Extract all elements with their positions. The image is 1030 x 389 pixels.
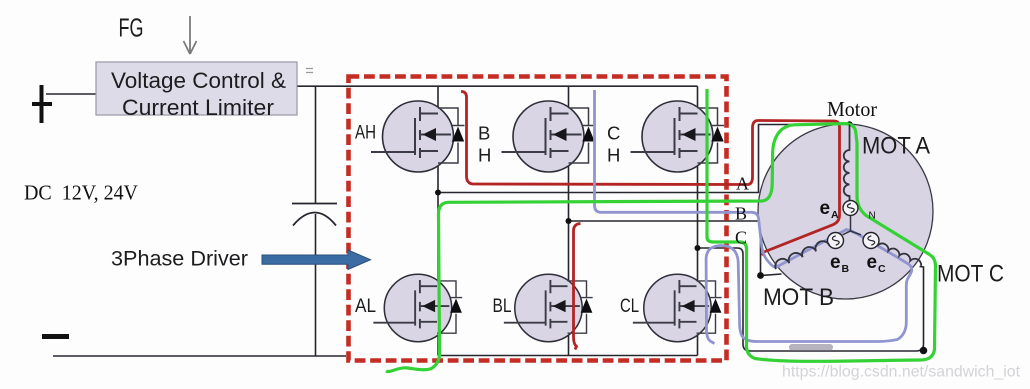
MOSFET BH (Q2) with body diode — [502, 101, 596, 172]
svg-text:H: H — [607, 145, 620, 166]
capacitor C1 curved plate — [293, 213, 336, 226]
svg-text:MOT A: MOT A — [862, 133, 931, 160]
svg-text:Voltage Control &: Voltage Control & — [111, 68, 286, 93]
wire phase C green branch via motor top — [386, 124, 930, 372]
winding MOT B coil — [775, 241, 829, 269]
wire bottom DC return — [53, 355, 346, 357]
FG input arrow — [184, 16, 197, 54]
wire phase C vertical bus — [697, 86, 699, 355]
battery minus terminal — [42, 334, 69, 339]
svg-text:N: N — [869, 211, 876, 222]
svg-text:B: B — [478, 123, 490, 144]
svg-text:e: e — [867, 252, 878, 273]
winding MOT C coil — [878, 243, 922, 265]
svg-text:CL: CL — [620, 295, 639, 317]
junction node phase A — [435, 190, 441, 196]
svg-text:B: B — [735, 204, 747, 224]
wire red BL branch — [574, 224, 581, 350]
svg-text:H: H — [478, 145, 491, 166]
small mark near box output — [306, 69, 313, 73]
wire phase A black to motor — [438, 125, 847, 193]
svg-text:C: C — [878, 263, 886, 275]
svg-text:FG: FG — [119, 15, 144, 43]
wire left DC bus lower segment — [315, 214, 317, 356]
junction node phase C — [695, 245, 701, 251]
3Phase Driver pointer arrow — [262, 250, 371, 270]
node N link — [843, 216, 862, 235]
control box: Voltage Control & Current Limiter — [96, 62, 297, 115]
wire phase A red: inverter to motor top — [461, 92, 840, 256]
junction node motor A terminal — [846, 121, 852, 127]
MOSFET CL (Q6) with body diode — [633, 274, 722, 341]
MOSFET AL (Q4) with body diode — [373, 274, 462, 341]
svg-text:e: e — [830, 252, 841, 273]
svg-text:C: C — [607, 123, 620, 144]
junction node motor C return — [920, 347, 928, 355]
wire phase B vertical bus — [568, 86, 570, 355]
wire phase B stub to winding B — [761, 274, 782, 276]
junction node motor B return — [757, 272, 764, 279]
MOSFET CH (Q3) with body diode — [631, 101, 725, 172]
svg-text:B: B — [842, 263, 850, 275]
svg-text:AL: AL — [355, 295, 376, 317]
wire left DC bus upper segment — [315, 86, 317, 203]
wire phase A vertical bus — [437, 86, 439, 355]
svg-text:MOT C: MOT C — [937, 261, 1004, 288]
wire phase B blue loop around motor — [706, 230, 912, 344]
svg-text:C: C — [735, 228, 747, 248]
MOSFET AH (Q1) with body diode — [371, 101, 465, 172]
junction node phase B — [566, 218, 572, 224]
wire phase C green ring: bus to motor bottom — [707, 89, 936, 361]
source eB circle — [828, 233, 844, 249]
svg-text:https://blog.csdn.net/sandwich: https://blog.csdn.net/sandwich_iot — [782, 364, 1021, 381]
wire inverter bottom rail — [438, 355, 698, 357]
svg-text:Current Limiter: Current Limiter — [122, 95, 275, 120]
winding MOT A coil — [844, 125, 850, 201]
battery plus terminal — [32, 85, 52, 123]
source eA circle — [843, 201, 858, 216]
wire phase C black loop under motor — [698, 248, 924, 351]
svg-text:DC 12V, 24V: DC 12V, 24V — [24, 181, 138, 205]
red dashed driver boundary box — [349, 77, 727, 361]
capacitor C1 top plate — [292, 203, 337, 205]
wire phase B blue: inverter to motor — [595, 90, 776, 268]
motor M1 body circle — [758, 124, 933, 299]
wire + to control box — [46, 93, 96, 95]
gray smudge under motor — [789, 344, 833, 351]
svg-text:3Phase Driver: 3Phase Driver — [111, 248, 248, 271]
svg-text:e: e — [820, 198, 831, 219]
svg-text:Motor: Motor — [827, 97, 877, 121]
wire phase B black to node — [569, 221, 761, 276]
svg-text:BL: BL — [493, 295, 512, 317]
svg-text:AH: AH — [355, 122, 376, 144]
svg-text:MOT B: MOT B — [763, 284, 834, 311]
svg-text:A: A — [831, 209, 839, 221]
wire top rail from control box to inverter — [297, 85, 698, 87]
source eC circle — [863, 233, 879, 249]
MOSFET BL (Q5) with body diode — [504, 274, 593, 341]
svg-text:A: A — [736, 174, 749, 194]
